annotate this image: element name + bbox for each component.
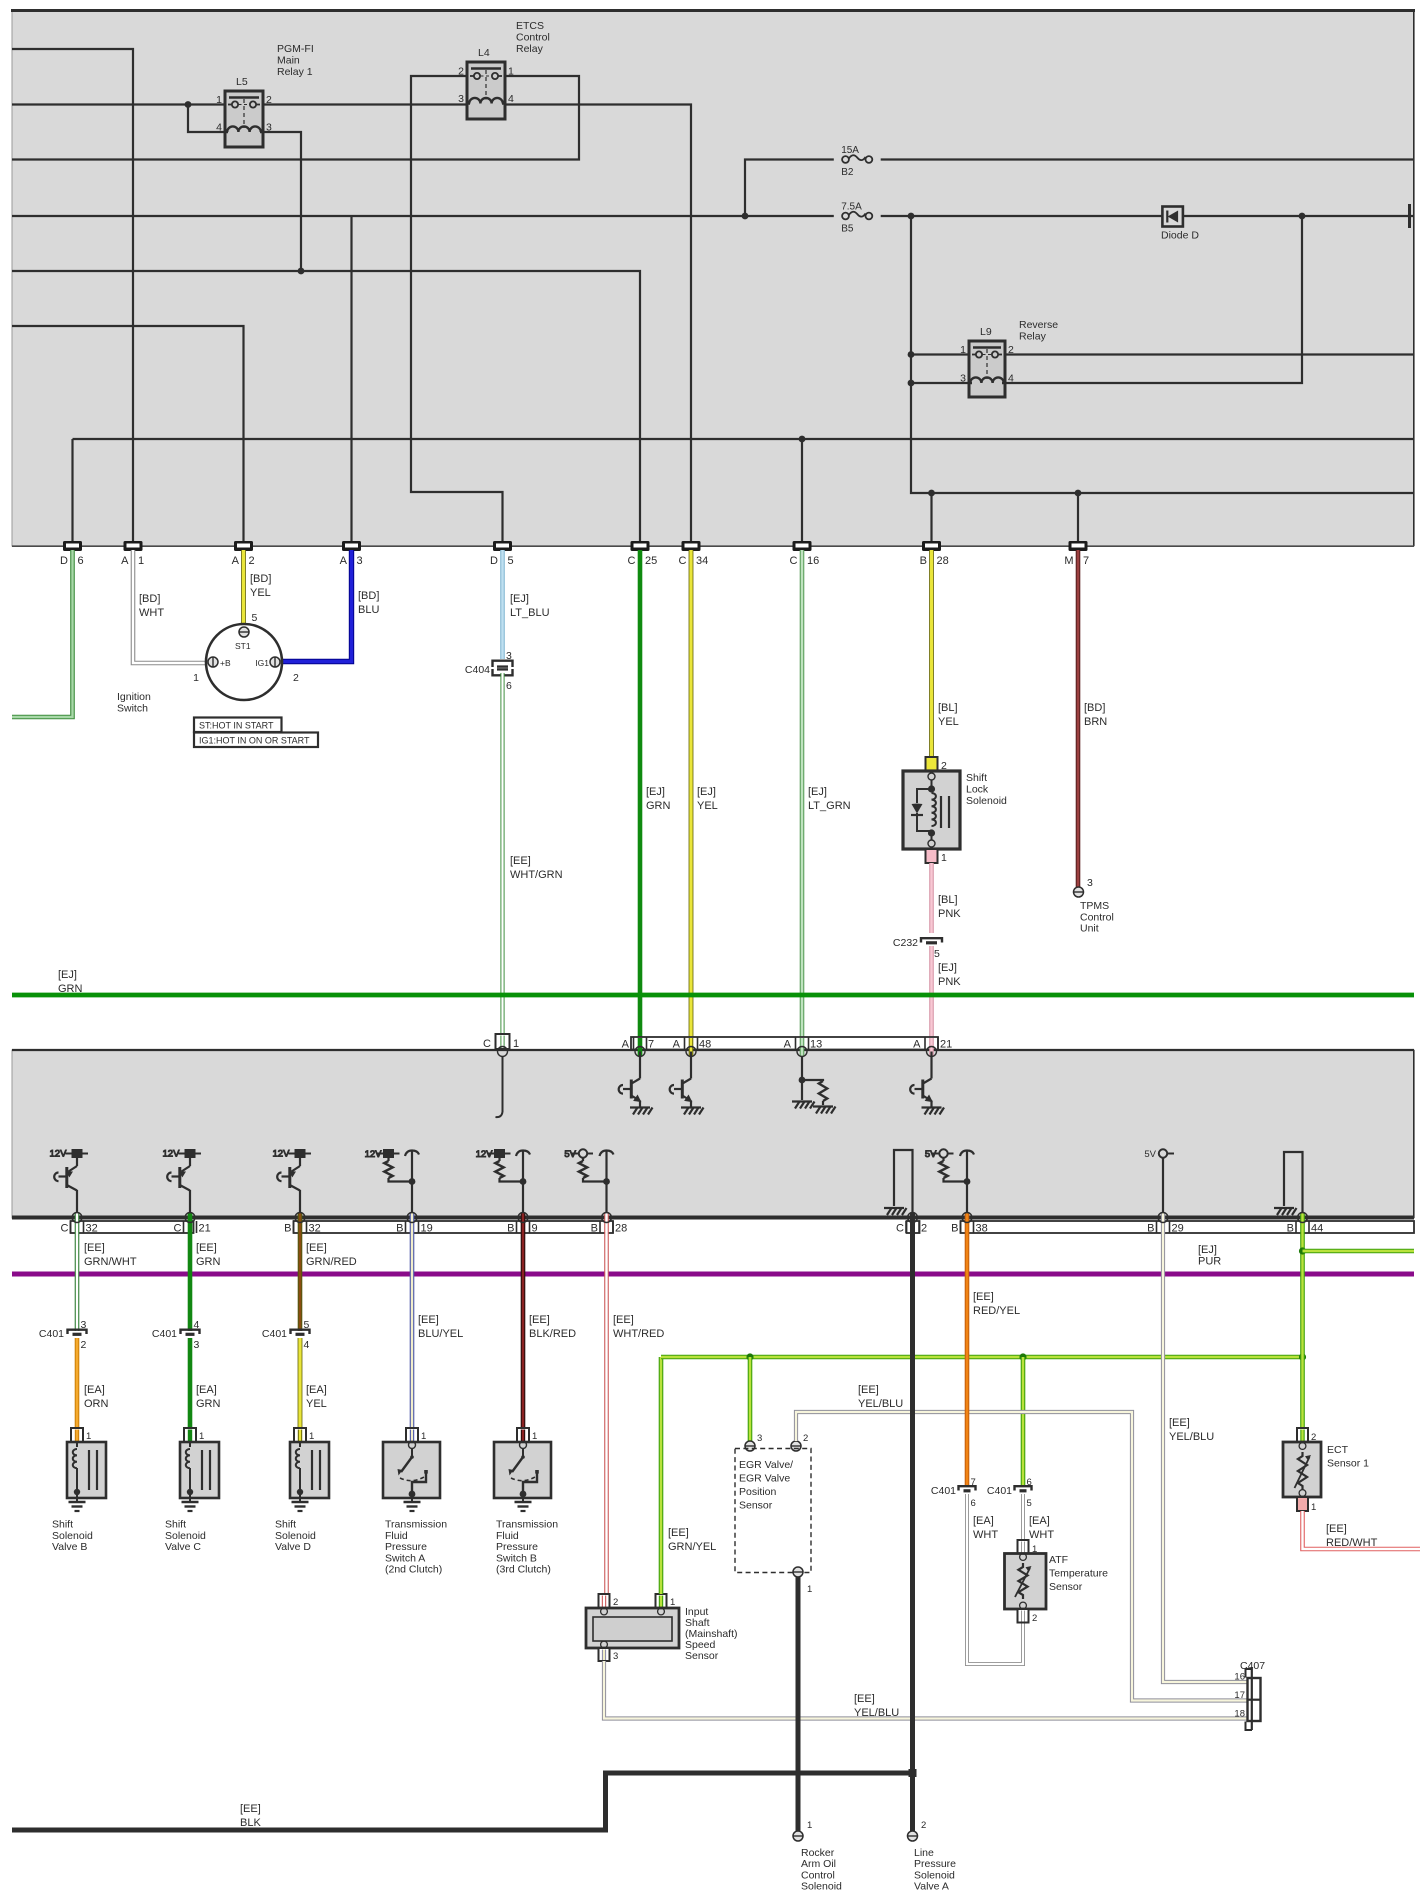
B29 stub — [1162, 1158, 1164, 1218]
svg-text:2: 2 — [293, 672, 299, 684]
svg-text:Fluid: Fluid — [385, 1530, 408, 1542]
svg-text:[EA]: [EA] — [306, 1384, 327, 1396]
input shaft speed sensor pin 3 — [599, 1648, 610, 1661]
svg-text:4: 4 — [194, 1319, 200, 1331]
svg-text:GRN/WHT: GRN/WHT — [84, 1256, 137, 1268]
svg-text:44: 44 — [1311, 1223, 1323, 1235]
svg-text:2: 2 — [266, 94, 272, 106]
svg-text:7.5A: 7.5A — [841, 202, 862, 213]
ignition +B terminal — [208, 657, 218, 667]
transistor driver A7 — [619, 1052, 641, 1107]
svg-text:3: 3 — [506, 650, 512, 662]
svg-text:6: 6 — [78, 555, 84, 567]
relay L5 (PGM-FI Main Relay 1) — [216, 76, 272, 147]
svg-text:Relay: Relay — [516, 43, 544, 55]
svg-text:C401: C401 — [39, 1328, 64, 1340]
pull-up 5V B28 resistor — [579, 1161, 587, 1178]
svg-text:3: 3 — [194, 1339, 200, 1351]
wire [EJ] PNK — [929, 946, 934, 1037]
svg-text:A: A — [673, 1039, 681, 1051]
pull-up 12V B19 resistor — [384, 1161, 392, 1178]
svg-text:Control: Control — [516, 32, 550, 44]
svg-text:6: 6 — [1027, 1477, 1032, 1488]
wire C1 stub — [502, 1056, 504, 1112]
svg-text:L9: L9 — [980, 326, 992, 338]
C21 circle — [185, 1213, 195, 1223]
svg-text:Valve D: Valve D — [275, 1541, 311, 1553]
svg-text:3: 3 — [960, 373, 966, 385]
svg-text:1: 1 — [670, 1597, 675, 1608]
svg-text:2: 2 — [249, 555, 255, 567]
wire y326 to A2 — [12, 326, 244, 541]
svg-text:Relay: Relay — [1019, 331, 1047, 343]
wire L9 pin1 — [911, 353, 969, 355]
pull-up 5V B38 — [925, 1149, 954, 1161]
svg-text:3: 3 — [357, 555, 363, 567]
wire [EE] YEL/BLU from EGR pin2 — [796, 1412, 1247, 1701]
pull-up 5V B28 feed curl — [600, 1151, 614, 1157]
junction 911,383 — [908, 380, 915, 387]
svg-text:Reverse: Reverse — [1019, 319, 1058, 331]
B38 circle — [962, 1213, 972, 1223]
wire [EA] ORN — [75, 1338, 80, 1428]
svg-text:C401: C401 — [931, 1485, 956, 1497]
ECT sensor 1 — [1283, 1442, 1321, 1497]
svg-text:1: 1 — [532, 1431, 537, 1442]
svg-text:ORN: ORN — [84, 1398, 109, 1410]
svg-text:3: 3 — [757, 1433, 762, 1444]
svg-text:PGM-FI: PGM-FI — [277, 43, 314, 55]
wire [EJ] YEL from C34 — [689, 550, 694, 1037]
connector strip C (C32 C21) — [71, 1221, 194, 1233]
PCM lower internal area (gray panel) — [12, 1050, 1414, 1218]
relay L4 (ETCS Control Relay) — [458, 47, 514, 119]
svg-text:5: 5 — [1027, 1498, 1032, 1509]
svg-text:B: B — [396, 1223, 403, 1235]
svg-text:WHT: WHT — [973, 1529, 998, 1541]
A7 circle — [635, 1047, 645, 1057]
pull-up 5V B28 — [564, 1149, 593, 1161]
svg-text:Relay 1: Relay 1 — [277, 66, 313, 78]
svg-text:28: 28 — [615, 1223, 627, 1235]
wire [EE] WHT/RED B28 — [604, 1213, 609, 1594]
input shaft speed sensor pin 1 — [656, 1594, 667, 1608]
connector C25 bar — [631, 541, 650, 551]
svg-text:1: 1 — [1311, 1502, 1316, 1513]
svg-text:48: 48 — [699, 1039, 711, 1051]
rocker arm terminal 1 — [793, 1831, 803, 1841]
wire y104 left to L5 pin1 — [12, 103, 225, 105]
junction 802,439 — [799, 436, 806, 443]
svg-text:3: 3 — [266, 122, 272, 134]
wire L5 pin3 down — [263, 132, 301, 271]
svg-text:[EJ]: [EJ] — [1198, 1244, 1217, 1256]
svg-text:(2nd Clutch): (2nd Clutch) — [385, 1564, 442, 1576]
svg-text:4: 4 — [508, 93, 514, 105]
EGR valve / EGR valve position sensor box — [735, 1449, 811, 1573]
B44 internal loop — [1284, 1152, 1303, 1218]
svg-text:Solenoid: Solenoid — [275, 1530, 316, 1542]
svg-text:Sensor 1: Sensor 1 — [1327, 1458, 1369, 1470]
B28 circle — [602, 1213, 612, 1223]
svg-text:[EE]: [EE] — [1326, 1523, 1347, 1535]
svg-text:IG1:HOT IN ON OR START: IG1:HOT IN ON OR START — [199, 736, 310, 746]
transmission fluid pressure switch B ground — [515, 1502, 532, 1511]
transmission fluid pressure switch B — [494, 1428, 551, 1502]
svg-text:Valve A: Valve A — [914, 1881, 949, 1893]
ATF temperature sensor — [1005, 1554, 1047, 1610]
svg-text:13: 13 — [810, 1039, 822, 1051]
svg-text:YEL: YEL — [250, 587, 271, 599]
svg-text:Shift: Shift — [966, 772, 987, 784]
svg-text:Valve C: Valve C — [165, 1541, 201, 1553]
ignition switch body — [206, 624, 282, 700]
svg-text:Solenoid: Solenoid — [914, 1869, 955, 1881]
B9 circle — [518, 1213, 528, 1223]
wire [EE] YEL/BLU from input pin3 — [604, 1661, 1247, 1719]
svg-text:[BD]: [BD] — [250, 573, 271, 585]
svg-text:[BL]: [BL] — [938, 894, 958, 906]
input shaft (mainshaft) speed sensor — [586, 1608, 679, 1648]
input shaft speed sensor pin 2 — [599, 1594, 610, 1608]
connector strip A (A7 A48 A13 A21) — [631, 1037, 938, 1050]
svg-text:18: 18 — [1234, 1709, 1245, 1720]
wire y49 to A1 — [12, 49, 133, 541]
svg-text:+B: +B — [220, 658, 231, 668]
svg-text:Main: Main — [277, 55, 300, 67]
ECT sensor pin 2 — [1297, 1428, 1308, 1442]
transmission fluid pressure switch A ground — [404, 1502, 421, 1511]
B32 circle — [295, 1213, 305, 1223]
svg-text:Control: Control — [801, 1869, 835, 1881]
transistor driver A48 ground — [681, 1108, 704, 1115]
pull-up 12V B9 resistor — [495, 1161, 503, 1178]
C2 loop ground — [884, 1208, 907, 1215]
svg-text:WHT: WHT — [139, 607, 164, 619]
svg-text:A: A — [340, 555, 348, 567]
svg-text:Pressure: Pressure — [496, 1541, 538, 1553]
connector C401 pin3/2 — [68, 1330, 87, 1335]
svg-text:C: C — [790, 555, 798, 567]
svg-text:RED/YEL: RED/YEL — [973, 1305, 1020, 1317]
svg-text:32: 32 — [309, 1223, 321, 1235]
svg-text:Switch A: Switch A — [385, 1552, 425, 1564]
svg-text:7: 7 — [971, 1477, 976, 1488]
svg-text:38: 38 — [976, 1223, 988, 1235]
connector C232 — [921, 938, 942, 943]
connector A3 bar — [342, 541, 361, 551]
svg-text:1: 1 — [199, 1431, 204, 1442]
svg-text:B: B — [1147, 1223, 1154, 1235]
svg-text:Temperature: Temperature — [1049, 1568, 1108, 1580]
junction 911,354 — [908, 351, 915, 358]
svg-text:WHT/RED: WHT/RED — [613, 1328, 664, 1340]
svg-text:Pressure: Pressure — [914, 1858, 956, 1870]
transistor 12V driver B32 — [273, 1149, 312, 1219]
svg-text:RED/WHT: RED/WHT — [1326, 1537, 1378, 1549]
svg-text:1: 1 — [138, 555, 144, 567]
svg-text:A: A — [622, 1039, 630, 1051]
junction 301,271 — [298, 268, 305, 275]
svg-text:Solenoid: Solenoid — [52, 1530, 93, 1542]
svg-text:Transmission: Transmission — [496, 1519, 558, 1531]
wire y216 after fuse — [881, 215, 1414, 217]
svg-text:B: B — [951, 1223, 958, 1235]
svg-text:Transmission: Transmission — [385, 1519, 447, 1531]
svg-text:5V: 5V — [1144, 1149, 1156, 1160]
A13 stub — [801, 1056, 803, 1080]
svg-text:C: C — [61, 1223, 69, 1235]
svg-text:2: 2 — [1032, 1613, 1037, 1624]
wire [EE] RED/YEL B38 — [965, 1213, 970, 1485]
svg-text:Sensor: Sensor — [739, 1500, 773, 1512]
wire [EE] YEL/BLU B29 — [1163, 1213, 1247, 1682]
svg-text:1: 1 — [807, 1820, 812, 1831]
svg-text:[BD]: [BD] — [1084, 702, 1105, 714]
svg-text:1: 1 — [421, 1431, 426, 1442]
svg-text:12V: 12V — [273, 1149, 291, 1160]
svg-text:EGR Valve: EGR Valve — [739, 1473, 790, 1485]
C1 stub curl end — [496, 1112, 503, 1117]
svg-text:Shift: Shift — [52, 1519, 73, 1531]
wire L5 pin2 to L4 pin3 — [263, 103, 467, 105]
svg-text:Diode D: Diode D — [1161, 230, 1199, 242]
svg-text:4: 4 — [216, 122, 222, 134]
A48 circle — [686, 1047, 696, 1057]
svg-text:5: 5 — [934, 948, 940, 960]
svg-text:16: 16 — [1234, 1672, 1245, 1683]
svg-text:[EE]: [EE] — [973, 1291, 994, 1303]
svg-text:Pressure: Pressure — [385, 1541, 427, 1553]
svg-text:Sensor: Sensor — [685, 1650, 719, 1662]
transistor driver A48 — [670, 1052, 692, 1107]
svg-text:7: 7 — [1083, 555, 1089, 567]
svg-text:17: 17 — [1234, 1690, 1245, 1701]
svg-text:Shift: Shift — [275, 1519, 296, 1531]
junction 932,493 — [928, 490, 935, 497]
svg-text:21: 21 — [199, 1223, 211, 1235]
wire C16 riser — [801, 439, 803, 541]
connector B28 bar — [922, 541, 941, 551]
wire [BD] WHT from A1 — [133, 550, 206, 663]
wire BLK from C2 — [910, 1213, 915, 1831]
wire [BL] YEL from B28 — [929, 550, 934, 757]
C32 circle — [72, 1213, 82, 1223]
svg-text:2: 2 — [1008, 344, 1014, 356]
svg-text:YEL: YEL — [306, 1398, 327, 1410]
svg-text:[EA]: [EA] — [196, 1384, 217, 1396]
svg-text:7: 7 — [648, 1039, 654, 1051]
ATF temperature sensor pin 2 — [1018, 1609, 1029, 1623]
svg-text:WHT: WHT — [1029, 1529, 1054, 1541]
junction 1078,493 — [1075, 490, 1082, 497]
shift solenoid valve C ground — [182, 1502, 199, 1511]
svg-text:Position: Position — [739, 1486, 777, 1498]
svg-text:YEL/BLU: YEL/BLU — [858, 1398, 903, 1410]
transistor driver A7 ground — [630, 1108, 653, 1115]
wire [BL] PNK — [929, 863, 934, 933]
svg-text:2: 2 — [803, 1433, 808, 1444]
pull-up 12V B19 — [365, 1149, 400, 1161]
connector C401 pin4/3 — [181, 1330, 200, 1335]
svg-text:1: 1 — [513, 1038, 519, 1050]
svg-text:L4: L4 — [478, 47, 490, 59]
svg-text:GRN/YEL: GRN/YEL — [668, 1541, 716, 1553]
svg-text:BLK/RED: BLK/RED — [529, 1328, 576, 1340]
svg-text:GRN/RED: GRN/RED — [306, 1256, 357, 1268]
svg-text:1: 1 — [309, 1431, 314, 1442]
svg-text:6: 6 — [971, 1498, 976, 1509]
shift solenoid valve D ground — [292, 1502, 309, 1511]
wire y159 to L4 pin1 — [12, 76, 579, 160]
svg-text:[EE]: [EE] — [418, 1314, 439, 1326]
svg-text:Switch: Switch — [117, 702, 148, 714]
connector M7 bar — [1069, 541, 1088, 551]
fuse B2 15A — [841, 145, 872, 178]
svg-text:[BD]: [BD] — [358, 590, 379, 602]
ECT sensor pin 1 — [1297, 1497, 1308, 1511]
svg-text:Lock: Lock — [966, 783, 989, 795]
svg-text:Shift: Shift — [165, 1519, 186, 1531]
svg-text:2: 2 — [613, 1597, 618, 1608]
pull-up 12V B9 — [476, 1149, 511, 1161]
connector D6 bar — [63, 541, 82, 551]
svg-text:[EA]: [EA] — [973, 1515, 994, 1527]
svg-text:1: 1 — [508, 66, 514, 78]
junction dots on green bus — [746, 1353, 753, 1360]
connector D5 bar — [493, 541, 512, 551]
wire [EJ] LT_BLU from D5 — [500, 550, 505, 659]
svg-text:15A: 15A — [841, 145, 859, 156]
connector strip B (B32..B28) — [294, 1221, 614, 1233]
wire [EA] GRN — [188, 1338, 193, 1428]
svg-text:3: 3 — [81, 1319, 87, 1331]
svg-text:[EE]: [EE] — [1169, 1417, 1190, 1429]
svg-text:BLU/YEL: BLU/YEL — [418, 1328, 463, 1340]
transistor 12V driver C32 — [50, 1149, 89, 1219]
wire L9 pin2 to right edge — [1005, 353, 1414, 355]
svg-text:9: 9 — [532, 1223, 538, 1235]
svg-text:16: 16 — [807, 555, 819, 567]
svg-text:BLU: BLU — [358, 604, 379, 616]
wire [BD] BLU from A3 — [282, 550, 352, 662]
A21 circle — [927, 1047, 937, 1057]
connector C16 bar — [793, 541, 812, 551]
svg-text:C: C — [896, 1223, 904, 1235]
wire [EE] BLU/YEL B19 — [410, 1213, 415, 1428]
connector C401 pin6/5 — [1015, 1486, 1032, 1491]
svg-text:[EE]: [EE] — [858, 1384, 879, 1396]
bus [EJ] PUR — [12, 1272, 1414, 1277]
svg-text:1: 1 — [960, 344, 966, 356]
pull-up 12V B19 feed curl — [405, 1151, 419, 1157]
svg-text:Switch B: Switch B — [496, 1552, 537, 1564]
svg-text:3: 3 — [1087, 877, 1093, 889]
svg-text:C: C — [174, 1223, 182, 1235]
wire [EE] RED/WHT — [1303, 1511, 1421, 1549]
shift solenoid valve C — [180, 1428, 219, 1502]
line pressure terminal 2 — [908, 1831, 918, 1841]
svg-text:B5: B5 — [841, 224, 854, 235]
svg-text:[EA]: [EA] — [84, 1384, 105, 1396]
svg-text:A: A — [232, 555, 240, 567]
B44 circle — [1298, 1213, 1308, 1223]
PCM upper internal area (gray panel) — [12, 11, 1414, 546]
transmission fluid pressure switch A — [383, 1428, 440, 1502]
svg-text:Control: Control — [1080, 911, 1114, 923]
svg-text:29: 29 — [1172, 1223, 1184, 1235]
svg-text:PUR: PUR — [1198, 1256, 1221, 1268]
svg-text:21: 21 — [940, 1039, 952, 1051]
A13 resistor gnd stub — [822, 1101, 824, 1105]
svg-text:Sensor: Sensor — [1049, 1581, 1083, 1593]
svg-text:C401: C401 — [152, 1328, 177, 1340]
svg-text:5: 5 — [304, 1319, 310, 1331]
svg-text:YEL: YEL — [938, 716, 959, 728]
relay L9 (Reverse Relay) — [960, 326, 1014, 397]
svg-text:C232: C232 — [893, 937, 918, 949]
svg-text:2: 2 — [81, 1339, 87, 1351]
pull-up 5V B38 junction — [964, 1178, 971, 1185]
svg-text:Solenoid: Solenoid — [966, 795, 1007, 807]
svg-text:Rocker: Rocker — [801, 1847, 835, 1859]
svg-text:4: 4 — [1008, 373, 1014, 385]
svg-text:A: A — [121, 555, 129, 567]
wire [EE] WHT/GRN — [500, 673, 504, 1037]
EGR terminal 2 — [791, 1441, 801, 1451]
svg-text:D: D — [60, 555, 68, 567]
A13 resistor ground — [813, 1107, 836, 1114]
wire [BD] BRN from M7 — [1076, 550, 1081, 887]
svg-text:ST1: ST1 — [235, 641, 251, 651]
connector C1 — [496, 1034, 510, 1049]
svg-text:LT_BLU: LT_BLU — [510, 607, 550, 619]
svg-text:BLK: BLK — [240, 1817, 261, 1829]
ignition ST1 terminal — [239, 627, 249, 637]
pull-up 12V B9 junction — [520, 1178, 527, 1185]
junction 745,216 — [742, 213, 749, 220]
C2 circle — [908, 1213, 918, 1223]
svg-text:Solenoid: Solenoid — [801, 1881, 842, 1893]
svg-text:[EJ]: [EJ] — [510, 593, 529, 605]
wire BLK rocker — [796, 1577, 801, 1831]
svg-text:5: 5 — [252, 612, 258, 624]
svg-text:[EJ]: [EJ] — [646, 786, 665, 798]
C1 circle — [498, 1047, 508, 1057]
svg-text:Solenoid: Solenoid — [165, 1530, 206, 1542]
svg-text:[BD]: [BD] — [139, 593, 160, 605]
wire B44 GRN/YEL — [1300, 1213, 1305, 1428]
svg-text:C: C — [679, 555, 687, 567]
svg-text:A: A — [913, 1039, 921, 1051]
svg-text:EGR Valve/: EGR Valve/ — [739, 1459, 793, 1471]
bus GRN/YEL y1357 — [661, 1355, 1303, 1360]
wire A3 riser — [350, 216, 352, 541]
wire [EE] BLK/RED B9 — [521, 1213, 526, 1428]
wire [EE] GRN C21 — [188, 1213, 193, 1331]
svg-text:1: 1 — [807, 1584, 812, 1595]
connector C34 bar — [682, 541, 701, 551]
svg-text:[EE]: [EE] — [196, 1242, 217, 1254]
C2 internal loop — [894, 1150, 913, 1218]
connector strip B38..B44 — [961, 1221, 1415, 1233]
svg-text:6: 6 — [506, 680, 512, 692]
junction 911,216 — [908, 213, 915, 220]
transistor 12V driver C21 — [163, 1149, 202, 1219]
svg-text:ATF: ATF — [1049, 1554, 1068, 1566]
svg-text:M: M — [1064, 555, 1073, 567]
wire BLK branch — [12, 1773, 913, 1830]
